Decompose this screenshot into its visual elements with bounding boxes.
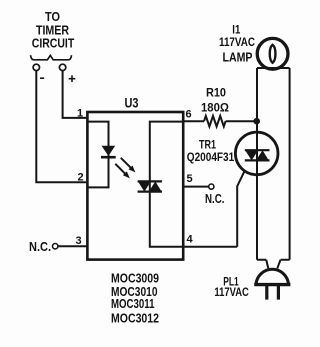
TR1 gate wire — [237, 171, 244, 247]
triac TR1 circle — [235, 132, 278, 175]
svg-text:5: 5 — [186, 173, 192, 185]
plus sign — [69, 75, 76, 82]
label TO TIMER CIRCUIT — [32, 9, 75, 51]
svg-text:117VAC: 117VAC — [214, 285, 249, 299]
svg-text:LAMP: LAMP — [223, 49, 253, 64]
svg-text:U3: U3 — [125, 95, 139, 111]
phototriac branch rectangle — [150, 122, 183, 247]
svg-text:1: 1 — [77, 107, 83, 119]
TR1 triac symbol — [245, 150, 270, 160]
cord rectangle — [257, 68, 290, 260]
pin 3 wire — [58, 245, 87, 247]
pin 6 wire — [183, 120, 204, 122]
brace — [31, 55, 72, 60]
LED D1 symbol — [101, 146, 116, 157]
plug prong left — [265, 286, 268, 300]
svg-text:CIRCUIT: CIRCUIT — [32, 36, 75, 51]
phototriac symbol — [138, 181, 162, 191]
plug prong right — [277, 286, 280, 300]
optocoupler U3 box — [87, 112, 183, 260]
svg-text:MOC3011: MOC3011 — [111, 296, 155, 311]
wire plus terminal to pin 1 — [63, 71, 87, 118]
minus sign — [40, 77, 44, 79]
lamp I1 bulb — [257, 38, 288, 69]
svg-text:117VAC: 117VAC — [219, 35, 255, 49]
junction node — [253, 118, 260, 125]
LED branch rectangle — [87, 122, 108, 188]
svg-text:N.C.: N.C. — [29, 240, 51, 254]
terminal minus — [33, 64, 39, 70]
pin 5 N.C. terminal — [209, 184, 214, 189]
wire resistor to node — [226, 120, 257, 122]
pin 3 N.C. terminal — [53, 244, 58, 249]
svg-text:180Ω: 180Ω — [201, 101, 229, 115]
svg-text:R10: R10 — [206, 85, 226, 99]
light arrow 2 — [115, 164, 130, 179]
plug neck — [266, 260, 280, 269]
plug base — [254, 283, 290, 286]
svg-text:N.C.: N.C. — [205, 192, 225, 206]
svg-text:MOC3012: MOC3012 — [111, 310, 159, 325]
light arrow 1 — [121, 158, 136, 173]
svg-text:Q2004F31: Q2004F31 — [187, 150, 235, 164]
plug PL1 dome — [256, 269, 289, 284]
svg-text:4: 4 — [186, 233, 193, 245]
svg-text:2: 2 — [77, 172, 83, 184]
resistor R10 — [204, 116, 226, 127]
wire minus terminal to pin 2 — [36, 71, 86, 183]
svg-text:6: 6 — [185, 108, 191, 120]
lamp filament — [270, 45, 276, 63]
terminal plus — [59, 64, 65, 70]
pin 5 wire — [183, 186, 209, 188]
pin 4 wire — [183, 246, 237, 248]
